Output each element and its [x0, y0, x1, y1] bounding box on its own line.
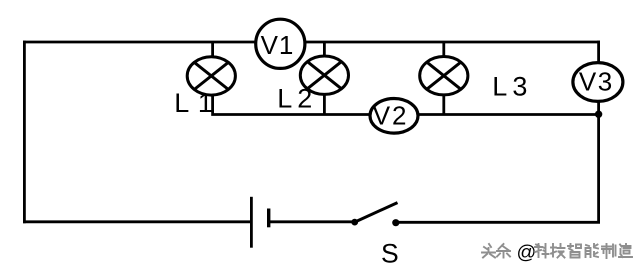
svg-text:L3: L3: [492, 72, 532, 102]
watermark 头条 @科技智能制造: [482, 242, 632, 264]
glyph 头: [482, 244, 495, 258]
wire L1 vertical lead: [211, 42, 214, 96]
wire right vertical: [597, 41, 600, 224]
svg-text:V3: V3: [579, 67, 614, 97]
svg-text:L2: L2: [277, 84, 317, 114]
voltmeter V2: [370, 99, 418, 134]
glyph 科: [535, 244, 549, 258]
wire L2 vertical lead: [323, 42, 326, 115]
junction node (right wire / second row): [595, 111, 602, 118]
glyph 技: [551, 244, 565, 258]
battery short plate: [267, 209, 270, 228]
svg-text:S: S: [381, 238, 399, 268]
svg-text:V1: V1: [261, 30, 295, 60]
wire bottom-middle segment (battery to switch): [269, 220, 352, 223]
glyph 能: [586, 244, 599, 257]
wire second row horizontal: [213, 96, 599, 115]
glyph 造: [619, 244, 632, 257]
voltmeter V3: [573, 63, 623, 102]
wire bottom-right segment (switch to right): [399, 221, 600, 224]
wire L3 vertical lead: [442, 42, 445, 115]
battery long plate: [250, 197, 253, 248]
wire bottom-left segment: [23, 220, 251, 223]
glyph 智: [568, 244, 581, 258]
glyph 制: [602, 244, 616, 258]
lamp L3: [420, 56, 468, 94]
lamp L2: [300, 56, 348, 94]
svg-text:V2: V2: [373, 100, 409, 130]
svg-text:L 1: L 1: [174, 88, 213, 118]
voltmeter V1: [256, 19, 305, 68]
wire top horizontal: [23, 41, 600, 44]
svg-text:@: @: [517, 242, 537, 264]
wire left vertical: [23, 41, 26, 224]
switch S: [351, 203, 399, 227]
glyph 条: [497, 244, 510, 258]
lamp L1: [187, 57, 235, 95]
